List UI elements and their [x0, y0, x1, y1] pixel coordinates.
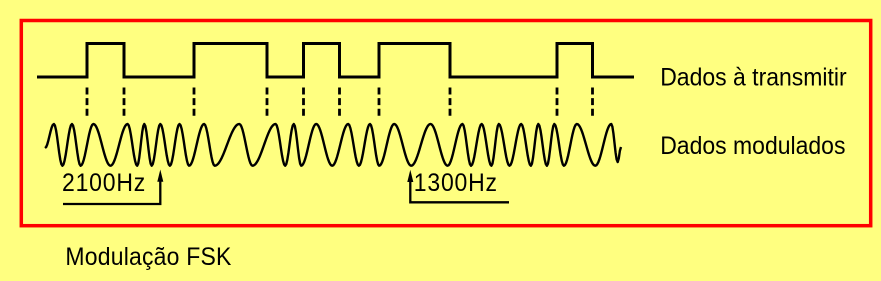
svg-text:Modulação FSK: Modulação FSK	[65, 243, 231, 271]
wire dashed transition marker x=592	[591, 88, 594, 117]
svg-text:Dados à transmitir: Dados à transmitir	[660, 63, 846, 91]
arrowhead 1300Hz	[407, 170, 413, 182]
arrowhead 2100Hz	[157, 170, 163, 182]
wire dashed transition marker x=557	[556, 88, 559, 117]
wire dashed transition marker x=340	[338, 88, 341, 117]
svg-text:Dados modulados: Dados modulados	[660, 132, 845, 160]
wire dashed transition marker x=194	[193, 88, 196, 117]
wire 2100Hz underline and arrow	[63, 181, 160, 204]
wire dashed transition marker x=379	[378, 88, 381, 117]
wire FSK modulated sine wave	[45, 124, 621, 166]
label 2100Hz	[62, 169, 146, 197]
svg-text:2100Hz: 2100Hz	[62, 169, 146, 197]
wire dashed transition marker x=267	[266, 88, 269, 117]
label 1300Hz	[414, 169, 498, 197]
wire dashed transition marker x=304	[302, 88, 305, 117]
wire digital data square wave	[37, 44, 634, 78]
wire 1300Hz underline and arrow	[410, 181, 509, 202]
wire dashed transition marker x=124	[123, 88, 126, 117]
label Modulação FSK	[65, 243, 231, 271]
wire dashed transition marker x=87	[86, 88, 89, 117]
red frame	[21, 21, 870, 226]
wire dashed transition marker x=450	[449, 88, 452, 117]
label Dados modulados	[660, 132, 845, 160]
label Dados à transmitir	[660, 63, 846, 91]
svg-text:1300Hz: 1300Hz	[414, 169, 498, 197]
